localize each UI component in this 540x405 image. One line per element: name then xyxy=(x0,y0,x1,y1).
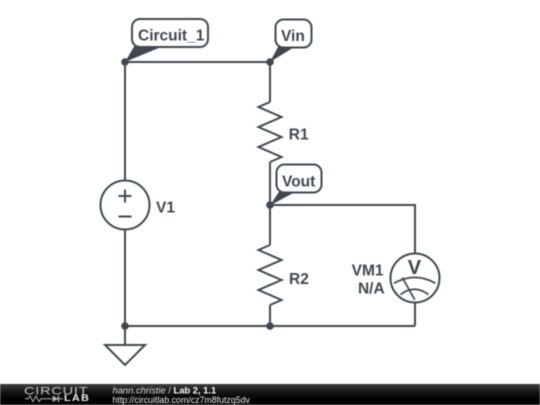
svg-text:N/A: N/A xyxy=(358,281,385,298)
wire R2 bottom lead xyxy=(269,305,271,326)
svg-text:Vin: Vin xyxy=(281,28,305,45)
voltage source V1 xyxy=(101,181,150,230)
footer logo resistor-diode symbol xyxy=(25,396,63,402)
wire top net Vin xyxy=(125,61,270,63)
wire R1 to Vout node xyxy=(269,162,271,205)
svg-text:R2: R2 xyxy=(289,271,309,288)
wire Vout to voltmeter xyxy=(270,205,415,254)
ground xyxy=(105,345,145,365)
node flag Vin xyxy=(270,20,312,63)
svg-text:VM1: VM1 xyxy=(352,263,384,280)
footer bar xyxy=(0,384,540,405)
voltmeter VM1 xyxy=(391,254,440,303)
svg-text:V1: V1 xyxy=(156,199,175,216)
wire ground lead xyxy=(124,326,126,345)
node flag Circuit_1 xyxy=(125,19,208,62)
wire R2 top lead xyxy=(269,205,271,245)
wire V1 bottom lead xyxy=(124,230,126,327)
resistor R1 xyxy=(259,102,282,162)
svg-text:V: V xyxy=(408,257,422,279)
wire bottom net xyxy=(125,325,415,327)
wire V1 top lead xyxy=(124,62,126,181)
wire VM1 bottom lead xyxy=(414,303,416,327)
svg-text:http://circuitlab.com/cz7m8fut: http://circuitlab.com/cz7m8futzq5dv xyxy=(113,395,251,405)
node dot Vin xyxy=(266,58,274,66)
svg-text:LAB: LAB xyxy=(64,394,90,404)
svg-text:R1: R1 xyxy=(289,126,309,143)
svg-text:Vout: Vout xyxy=(282,173,315,190)
node dot Vout xyxy=(266,201,274,209)
resistor R2 xyxy=(259,245,282,305)
svg-text:Circuit_1: Circuit_1 xyxy=(138,27,205,44)
node dot ground left xyxy=(121,322,129,330)
node dot ground mid xyxy=(266,322,274,330)
node flag Vout xyxy=(270,165,322,206)
wire R1 top lead xyxy=(269,62,271,102)
node dot Circuit_1 xyxy=(121,58,129,66)
